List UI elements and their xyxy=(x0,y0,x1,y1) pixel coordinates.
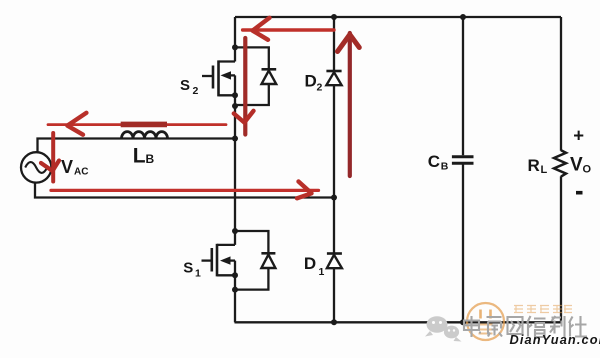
svg-text:AC: AC xyxy=(74,167,88,178)
svg-text:S: S xyxy=(183,260,193,277)
svg-text:V: V xyxy=(570,155,583,176)
svg-text:+: + xyxy=(573,124,584,145)
svg-text:1: 1 xyxy=(195,268,201,280)
svg-text:D: D xyxy=(304,254,316,273)
svg-text:S: S xyxy=(180,77,190,94)
svg-text:V: V xyxy=(61,157,73,177)
svg-text:B: B xyxy=(146,152,155,166)
svg-text:C: C xyxy=(428,152,440,171)
svg-text:1: 1 xyxy=(319,266,325,278)
svg-text:L: L xyxy=(133,145,146,168)
svg-text:O: O xyxy=(583,164,592,176)
svg-text:L: L xyxy=(541,164,548,176)
svg-text:R: R xyxy=(528,156,540,175)
svg-text:2: 2 xyxy=(193,85,199,97)
svg-text:DianYuan.com: DianYuan.com xyxy=(510,332,600,347)
svg-text:B: B xyxy=(441,161,449,173)
svg-text:D: D xyxy=(305,72,317,91)
svg-text:2: 2 xyxy=(317,82,323,94)
